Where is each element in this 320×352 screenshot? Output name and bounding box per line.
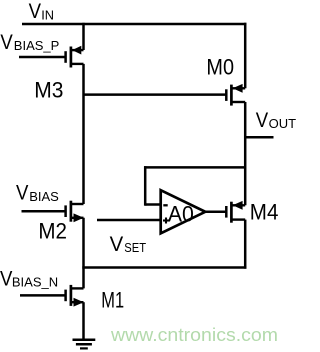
wire VSET to op-amp non-inverting input lead (97, 219, 161, 222)
svg-text:M0: M0 (206, 55, 234, 80)
node VIN label (29, 0, 54, 23)
node VOUT label (256, 108, 296, 132)
wire feedback top (VOUT to op-amp inverting input) (144, 166, 245, 169)
transistor M0 (PMOS) (226, 84, 245, 106)
svg-text:M1: M1 (101, 288, 124, 313)
node VBIAS_P label (0, 30, 59, 54)
wire M2 gate lead (22, 210, 67, 213)
wire op-amp inverting input lead (145, 203, 161, 206)
wire M3 drain down to M2 drain (82, 64, 85, 204)
wire bottom node (M4 drain to M1 drain / M2 source) (82, 266, 246, 269)
svg-text:V: V (16, 181, 29, 205)
svg-text:M2: M2 (38, 218, 67, 243)
wire rail branch down to M3 source (82, 23, 85, 50)
wire M4 drain down to bottom node (244, 220, 247, 269)
transistor M3 (PMOS) (66, 46, 84, 68)
svg-text:V: V (29, 0, 42, 23)
svg-text:V: V (256, 108, 269, 132)
svg-text:IN: IN (41, 8, 54, 23)
svg-text:A0: A0 (168, 201, 194, 226)
transistor M4 (PMOS) (226, 201, 245, 223)
wire M0 gate lead from M3 drain node (84, 93, 228, 96)
wire M0 drain down to M4 source (VOUT net) (244, 102, 247, 205)
wire VOUT stub (245, 136, 273, 139)
svg-text:BIAS_N: BIAS_N (12, 275, 58, 290)
wire VIN top rail (22, 23, 246, 26)
ground (73, 340, 96, 349)
wire op-amp output to M4 gate (204, 211, 227, 214)
wire M2 source down through bottom node to M1 drain (82, 218, 85, 289)
node VBIAS_N label (0, 266, 58, 290)
svg-text:M4: M4 (250, 200, 279, 225)
svg-text:OUT: OUT (269, 116, 297, 131)
svg-text:www.cntronics.com: www.cntronics.com (110, 325, 278, 345)
svg-text:V: V (0, 30, 13, 54)
wire M1 source to ground (82, 302, 85, 340)
svg-text:V: V (110, 232, 124, 256)
wire M1 gate lead (20, 294, 67, 297)
transistor M2 (NMOS) (66, 201, 84, 223)
svg-text:BIAS_P: BIAS_P (14, 38, 60, 53)
node VSET label (110, 232, 147, 256)
node VBIAS label (16, 181, 59, 205)
svg-text:M3: M3 (34, 77, 63, 102)
op-amp A0 (161, 190, 206, 233)
wire M3 gate lead (19, 56, 67, 59)
svg-text:BIAS: BIAS (29, 189, 59, 204)
wire rail right drop to M0 source (244, 23, 247, 89)
transistor M1 (NMOS) (66, 285, 84, 307)
wire feedback left vertical (144, 166, 147, 206)
svg-text:SET: SET (124, 240, 146, 255)
